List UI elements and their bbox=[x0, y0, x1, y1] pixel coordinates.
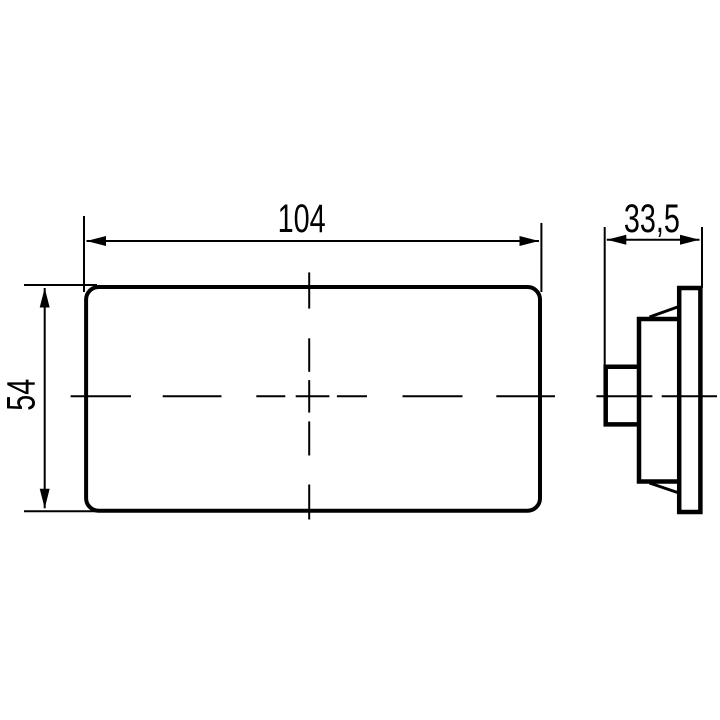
svg-text:33,5: 33,5 bbox=[624, 196, 680, 241]
dimension 54: dimension line bbox=[44, 288, 46, 508]
dimension 54: extension line bottom bbox=[24, 510, 100, 512]
dimension 104: right arrowhead bbox=[520, 236, 540, 246]
side view: horizontal center line bbox=[596, 395, 717, 397]
dimension 33,5: dimension line bbox=[607, 239, 700, 241]
dimension 33,5: left arrowhead bbox=[607, 235, 627, 245]
side view: lens rectangle bbox=[679, 288, 700, 512]
dimension 33,5: extension line right bbox=[701, 227, 703, 288]
dimension 104: dimension line bbox=[87, 240, 540, 242]
dimension 104: extension line left bbox=[83, 216, 85, 292]
dimension 33,5: extension line left bbox=[604, 227, 606, 366]
dimension 54: extension line top bbox=[24, 284, 97, 286]
side view: plug boss (left edge, top edge, bottom edge) bbox=[606, 367, 639, 425]
front view: rounded rectangle outline bbox=[86, 287, 540, 511]
dimension 104: extension line right bbox=[540, 223, 542, 292]
side view: top chamfer diagonal bbox=[650, 307, 680, 318]
side view: housing body (left edge, top edge, bottom edge) bbox=[639, 319, 679, 482]
dimension 33,5: right arrowhead bbox=[680, 235, 700, 245]
side view: bottom chamfer diagonal bbox=[650, 483, 680, 493]
front view horizontal center line bbox=[71, 395, 555, 397]
svg-text:54: 54 bbox=[0, 379, 44, 411]
front view vertical center line bbox=[308, 272, 310, 519]
svg-text:104: 104 bbox=[278, 196, 326, 241]
dimension 54: top arrowhead bbox=[40, 288, 50, 308]
dimension 104: left arrowhead bbox=[87, 236, 107, 246]
dimension 54: bottom arrowhead bbox=[40, 489, 50, 509]
